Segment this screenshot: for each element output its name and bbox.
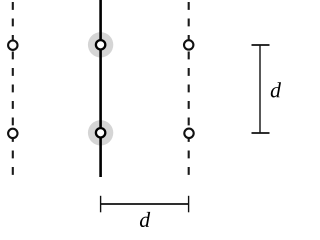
label d (horizontal spacing) (140, 212, 150, 227)
dimension: vertical spacing marker right (252, 45, 270, 133)
node: atom bottom-right (184, 129, 193, 138)
node: atom top-middle (96, 40, 105, 49)
halo on bottom middle atom (88, 120, 113, 145)
wire: middle solid lattice plane (99, 0, 102, 177)
halo on top middle atom (88, 32, 113, 57)
node: atom top-left (8, 41, 17, 50)
node: atom bottom-middle (96, 128, 105, 137)
node: atom bottom-left (8, 129, 17, 138)
dimension: horizontal spacing marker bottom (101, 196, 189, 213)
wire: right dashed lattice plane (188, 2, 190, 176)
wire: left dashed lattice plane (12, 2, 14, 176)
node: atom top-right (184, 40, 193, 49)
label d (vertical spacing) (271, 82, 281, 97)
